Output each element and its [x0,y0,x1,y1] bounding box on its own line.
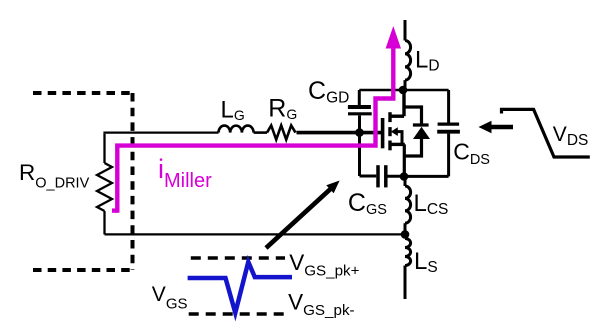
svg-text:CGS: CGS [348,189,387,218]
svg-text:VDS: VDS [553,123,589,149]
svg-text:VGS_pk-: VGS_pk- [288,289,355,319]
svg-text:CDS: CDS [453,138,490,168]
svg-text:VGS: VGS [152,283,188,313]
svg-text:iMiller: iMiller [158,154,212,192]
svg-text:LCS: LCS [414,190,449,218]
svg-text:LG: LG [221,97,245,124]
svg-text:VGS_pk+: VGS_pk+ [289,250,359,280]
svg-text:CGD: CGD [308,77,349,107]
svg-text:LS: LS [414,248,438,276]
svg-text:RG: RG [268,95,297,123]
svg-text:RO_DRIV: RO_DRIV [19,160,90,192]
svg-text:LD: LD [415,47,440,75]
